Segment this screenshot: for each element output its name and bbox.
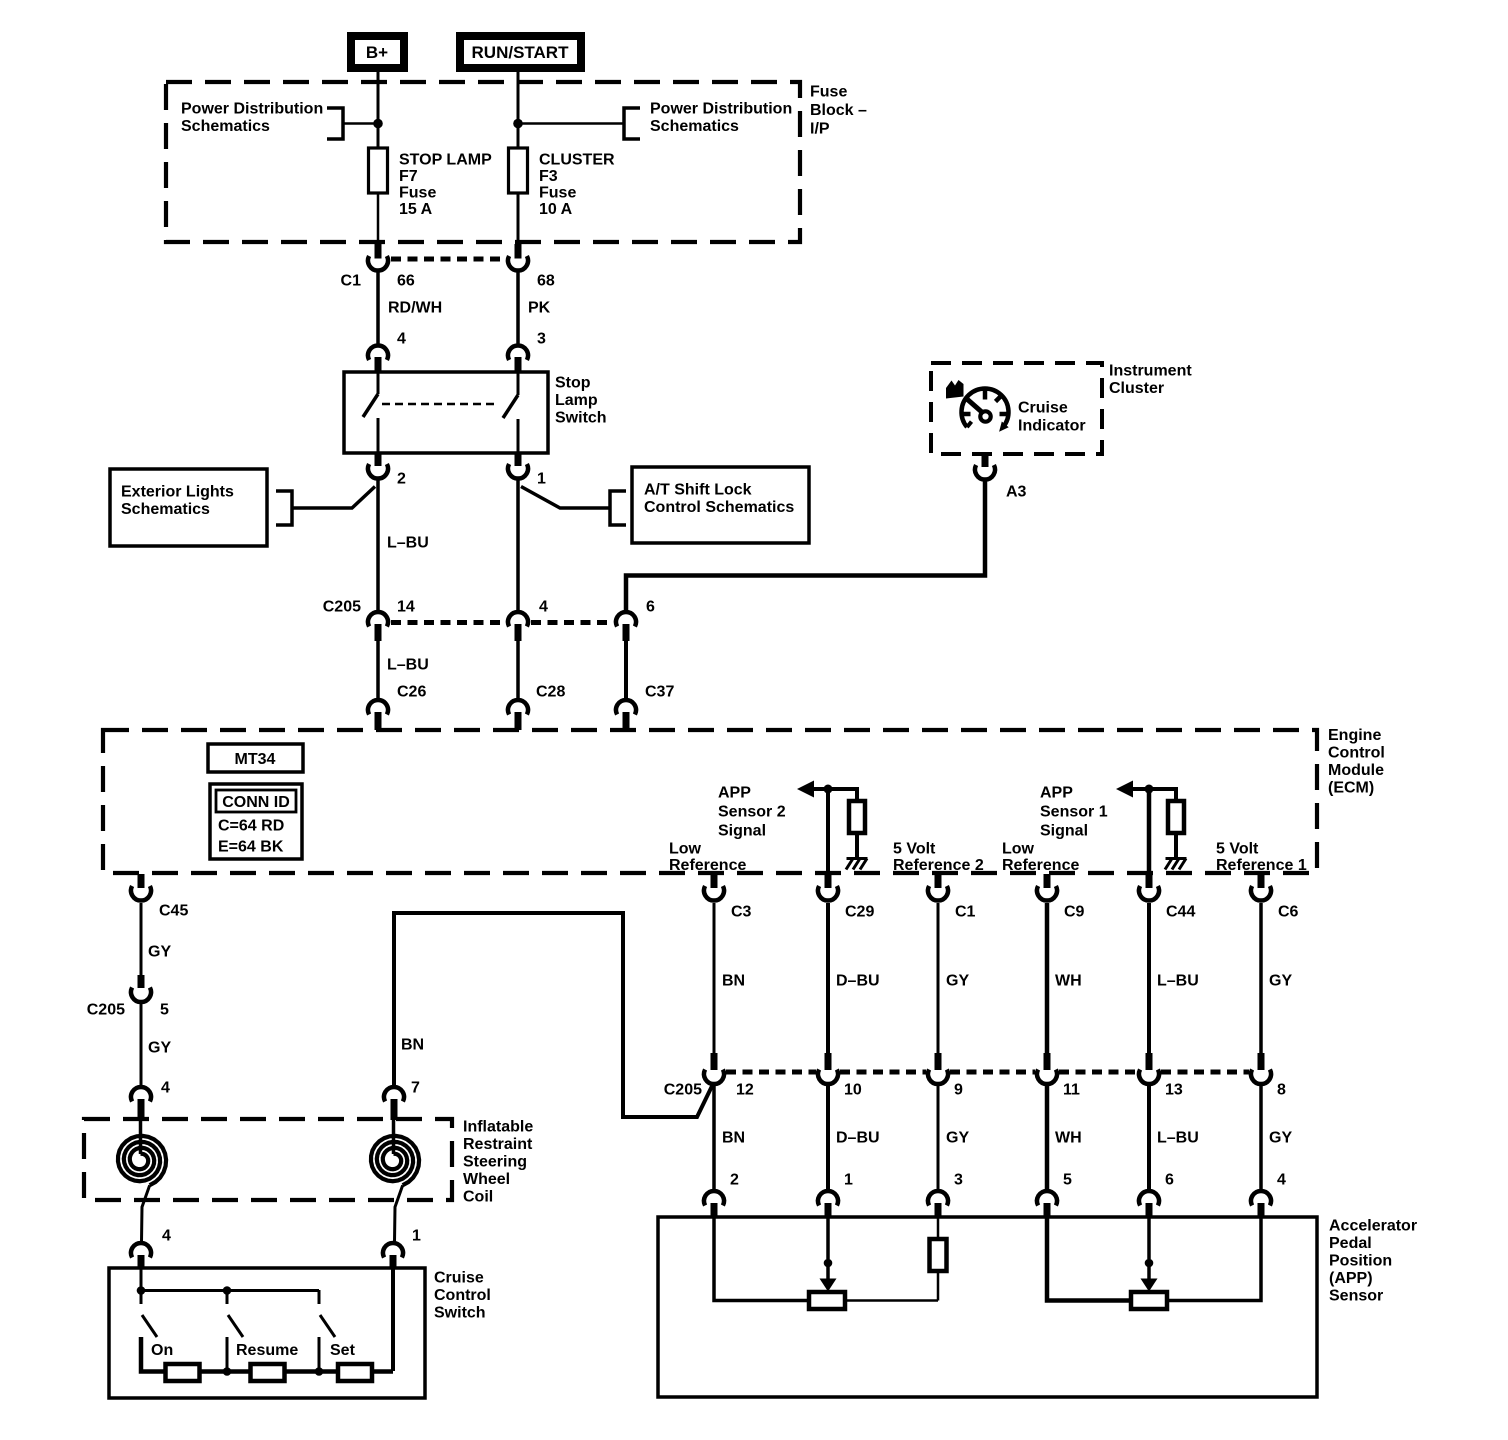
- svg-text:A/T Shift Lock: A/T Shift Lock: [644, 482, 752, 499]
- connector C45: [131, 874, 151, 901]
- connector pin 1 below switch: [508, 453, 528, 479]
- instrument cluster dashed box: [931, 363, 1102, 454]
- svg-text:Fuse: Fuse: [539, 185, 576, 202]
- svg-text:L–BU: L–BU: [387, 535, 429, 552]
- svg-text:C26: C26: [397, 684, 426, 701]
- svg-text:Accelerator: Accelerator: [1329, 1218, 1417, 1235]
- svg-text:C205: C205: [664, 1082, 702, 1099]
- wire L&#8211;BU C44 to C205: [1147, 903, 1151, 1054]
- wire APP sensor 2 signal down: [826, 789, 830, 874]
- svg-text:Resume: Resume: [236, 1342, 298, 1359]
- wire BN C205 to APP sensor: [712, 1086, 716, 1191]
- svg-text:APP: APP: [718, 785, 751, 802]
- wire D&#8211;BU C29 to C205: [826, 903, 830, 1054]
- label Inflatable Restraint Steering Wheel Coil: [463, 1119, 533, 1206]
- svg-text:WH: WH: [1055, 1130, 1082, 1147]
- resistor pull-up sensor 2: [849, 801, 865, 833]
- wire D&#8211;BU C205 to APP sensor: [826, 1086, 830, 1191]
- svg-text:STOP LAMP: STOP LAMP: [399, 152, 492, 169]
- svg-text:Low: Low: [669, 841, 702, 858]
- connector C9: [1037, 874, 1057, 901]
- svg-text:C1: C1: [341, 273, 362, 290]
- connector C205 pin 10: [818, 1053, 838, 1084]
- connector pin 3 stop lamp switch: [508, 345, 528, 372]
- svg-text:4: 4: [1277, 1172, 1286, 1189]
- C205 dashed mating line: [391, 620, 613, 625]
- svg-text:4: 4: [161, 1080, 170, 1097]
- svg-text:Reference: Reference: [1002, 857, 1079, 874]
- svg-text:L–BU: L–BU: [1157, 1130, 1199, 1147]
- wire WH C205 to APP sensor: [1045, 1086, 1050, 1191]
- svg-text:D–BU: D–BU: [836, 973, 880, 990]
- connector C205 pin 8: [1251, 1053, 1271, 1084]
- svg-text:Low: Low: [1002, 841, 1035, 858]
- connector C44: [1139, 874, 1159, 901]
- wire APP pin3 through resistor to potentiometer 2 high end: [937, 1217, 940, 1239]
- svg-text:10 A: 10 A: [539, 201, 573, 218]
- svg-text:Module: Module: [1328, 762, 1384, 779]
- svg-text:RUN/START: RUN/START: [472, 43, 570, 62]
- junction dot: [223, 1286, 232, 1295]
- svg-text:68: 68: [537, 273, 555, 290]
- svg-text:4: 4: [397, 331, 406, 348]
- svg-text:9: 9: [954, 1082, 963, 1099]
- connector C1: [928, 874, 948, 901]
- svg-text:(ECM): (ECM): [1328, 780, 1374, 797]
- ground (chassis) sensor 1: [1165, 859, 1187, 870]
- svg-text:14: 14: [397, 599, 415, 616]
- resistor R-on: [166, 1364, 200, 1381]
- connector C205 pin 5: [131, 975, 151, 1002]
- wire GY C6 to C205: [1259, 903, 1263, 1054]
- svg-text:3: 3: [954, 1172, 963, 1189]
- svg-text:10: 10: [844, 1082, 862, 1099]
- svg-text:E=64 BK: E=64 BK: [218, 839, 284, 856]
- wire L-BU C205-14 to C26: [376, 640, 380, 698]
- svg-text:5: 5: [160, 1002, 169, 1019]
- connector cruise switch pin 1: [383, 1243, 403, 1269]
- wire APP pin5 to potentiometer 1 low end: [1047, 1217, 1131, 1301]
- svg-text:C37: C37: [645, 684, 674, 701]
- fuse F7 STOP LAMP 15A: [369, 148, 493, 218]
- svg-text:Fuse: Fuse: [810, 84, 847, 101]
- label Instrument Cluster: [1109, 363, 1192, 398]
- junction dot: [1145, 785, 1154, 794]
- switch contact left (pin4 side): [377, 372, 380, 394]
- svg-text:5: 5: [1063, 1172, 1072, 1189]
- svg-text:C6: C6: [1278, 904, 1299, 921]
- svg-text:GY: GY: [148, 1040, 171, 1057]
- wire exterior lights to pin 2: [292, 487, 375, 509]
- wire cruise indicator A3 to C205-6: [626, 481, 985, 611]
- wire GY C205-5 to coil pin 4: [140, 1004, 143, 1086]
- svg-text:1: 1: [537, 471, 546, 488]
- connector coil pin 4: [131, 1087, 151, 1120]
- resistor pull-up sensor 1: [1168, 801, 1184, 833]
- svg-text:C29: C29: [845, 904, 874, 921]
- svg-text:L–BU: L–BU: [1157, 973, 1199, 990]
- svg-text:L–BU: L–BU: [387, 657, 429, 674]
- common bus: [141, 1289, 319, 1292]
- svg-text:Wheel: Wheel: [463, 1171, 510, 1188]
- connector C205 pin 12: [704, 1053, 724, 1084]
- svg-text:Signal: Signal: [718, 823, 766, 840]
- power symbol B+: [351, 36, 404, 68]
- svg-text:5 Volt: 5 Volt: [893, 841, 936, 858]
- svg-text:5 Volt: 5 Volt: [1216, 841, 1259, 858]
- wire resistor to ground: [855, 833, 859, 858]
- exterior lights schematics box: [110, 469, 267, 546]
- wire RUN/START to fuse F3: [517, 72, 520, 148]
- connector C205 pin 14: [368, 612, 388, 641]
- label Low Reference (right): [1002, 841, 1079, 875]
- svg-text:15 A: 15 A: [399, 201, 433, 218]
- connector APP pin 4: [1251, 1191, 1271, 1218]
- svg-text:GY: GY: [946, 1130, 969, 1147]
- connector C205 pin 11: [1037, 1053, 1057, 1084]
- wire APP sensor 1 signal down: [1147, 789, 1152, 874]
- svg-text:(APP): (APP): [1329, 1270, 1373, 1287]
- svg-text:6: 6: [1165, 1172, 1174, 1189]
- accelerator pedal position sensor box: [658, 1217, 1317, 1397]
- connector C205 pin 13: [1139, 1053, 1159, 1084]
- C205 dashed mating line (right): [726, 1070, 1249, 1075]
- switch contact right lower: [517, 419, 520, 453]
- label Stop Lamp Switch: [555, 375, 607, 427]
- resistor R-set: [338, 1364, 372, 1381]
- connector C205 pin 6: [616, 612, 636, 641]
- wire A/T shift lock to pin 1: [521, 487, 610, 509]
- connector C1 dashed mating line: [391, 257, 505, 262]
- connector C28: [508, 700, 528, 730]
- svg-text:7: 7: [411, 1080, 420, 1097]
- svg-text:Control: Control: [1328, 745, 1385, 762]
- svg-text:Power Distribution: Power Distribution: [650, 101, 792, 118]
- label APP Sensor 1 Signal: [1040, 785, 1108, 840]
- svg-text:3: 3: [537, 331, 546, 348]
- fuse block I/P dashed box: [166, 82, 800, 242]
- wire GY C45 to C205-5: [140, 903, 143, 975]
- wire resistor to potentiometer 2: [845, 1271, 938, 1301]
- label Engine Control Module (ECM): [1328, 727, 1385, 797]
- fuse F3 CLUSTER 10A: [509, 148, 616, 218]
- svg-text:Instrument: Instrument: [1109, 363, 1192, 380]
- connector coil pin 7: [384, 1087, 404, 1120]
- svg-text:Switch: Switch: [434, 1305, 486, 1322]
- connector C1 pin 66: [368, 244, 388, 271]
- svg-text:Schematics: Schematics: [650, 118, 739, 135]
- svg-text:Lamp: Lamp: [555, 392, 598, 409]
- wire RD/WH: [376, 273, 380, 346]
- connector APP pin 5: [1037, 1191, 1057, 1218]
- svg-text:2: 2: [730, 1172, 739, 1189]
- connector C1 pin 68: [508, 244, 528, 271]
- switch Set: [319, 1290, 335, 1371]
- svg-text:1: 1: [844, 1172, 853, 1189]
- wire right reference to RUN/START feed: [518, 122, 624, 125]
- svg-text:Fuse: Fuse: [399, 185, 436, 202]
- svg-text:APP: APP: [1040, 785, 1073, 802]
- svg-text:11: 11: [1063, 1082, 1080, 1099]
- wire pin1 to C205-4: [516, 480, 520, 611]
- svg-text:B+: B+: [366, 43, 388, 62]
- steering wheel coil spiral (pin 4 side): [118, 1119, 166, 1242]
- svg-text:GY: GY: [946, 973, 969, 990]
- svg-text:GY: GY: [1269, 1130, 1292, 1147]
- svg-text:Set: Set: [330, 1342, 356, 1359]
- svg-text:Restraint: Restraint: [463, 1136, 533, 1153]
- svg-text:Switch: Switch: [555, 410, 607, 427]
- svg-text:8: 8: [1277, 1082, 1286, 1099]
- svg-text:Block –: Block –: [810, 102, 867, 119]
- svg-text:Sensor 2: Sensor 2: [718, 804, 786, 821]
- wire C205-6 to C37: [624, 640, 628, 698]
- label 5 Volt Reference 2: [893, 841, 984, 875]
- connector A3 instrument cluster: [975, 454, 995, 480]
- junction dot: [373, 119, 383, 129]
- junction dot: [137, 1286, 146, 1295]
- connector pin 4 stop lamp switch: [368, 345, 388, 372]
- svg-text:Indicator: Indicator: [1018, 418, 1086, 435]
- svg-text:Position: Position: [1329, 1253, 1392, 1270]
- connector C6: [1251, 874, 1271, 901]
- connector C3: [704, 874, 724, 901]
- svg-text:Stop: Stop: [555, 375, 591, 392]
- off-page reference Power Distribution Schematics (right): [624, 101, 792, 140]
- engine control module dashed box: [103, 730, 1317, 873]
- svg-text:C=64 RD: C=64 RD: [218, 818, 284, 835]
- wire F7 to connector C1-66: [377, 193, 380, 245]
- wire BN C3 to C205: [713, 903, 716, 1054]
- svg-text:BN: BN: [722, 1130, 745, 1147]
- label 5 Volt Reference 1: [1216, 841, 1307, 875]
- label APP Sensor 2 Signal: [718, 785, 786, 840]
- svg-text:C205: C205: [87, 1002, 125, 1019]
- svg-text:RD/WH: RD/WH: [388, 300, 442, 317]
- svg-text:A3: A3: [1006, 484, 1027, 501]
- svg-text:F3: F3: [539, 168, 558, 185]
- junction dot: [315, 1367, 324, 1376]
- label Cruise Indicator: [1018, 400, 1086, 435]
- svg-text:Cruise: Cruise: [1018, 400, 1068, 417]
- svg-text:Reference 2: Reference 2: [893, 857, 984, 874]
- connector APP pin 1: [818, 1191, 838, 1218]
- switch contact right (pin3 side): [517, 372, 520, 395]
- svg-text:BN: BN: [722, 973, 745, 990]
- connector C26: [368, 700, 388, 730]
- bottom bus with resistors: [141, 1337, 393, 1372]
- resistor R-resume: [251, 1364, 285, 1381]
- wire WH C9 to C205: [1045, 903, 1050, 1054]
- svg-text:C45: C45: [159, 903, 188, 920]
- wire F3 to connector C1-68: [517, 193, 520, 245]
- ground (chassis) sensor 2: [846, 859, 868, 870]
- label box MT34: [208, 744, 303, 772]
- connector APP pin 6: [1139, 1191, 1159, 1218]
- svg-text:6: 6: [646, 599, 655, 616]
- svg-text:PK: PK: [528, 300, 551, 317]
- steering wheel coil dashed box: [84, 1119, 452, 1200]
- label Low Reference (left): [669, 841, 746, 875]
- bracket A/T shift lock: [610, 491, 626, 525]
- switch blade left: [363, 394, 378, 417]
- svg-text:Exterior Lights: Exterior Lights: [121, 484, 234, 501]
- connector C205 pin 9: [928, 1053, 948, 1084]
- svg-text:Schematics: Schematics: [121, 501, 210, 518]
- svg-text:4: 4: [539, 599, 548, 616]
- stop lamp switch box: [344, 372, 548, 453]
- connector C37: [616, 700, 636, 730]
- svg-text:4: 4: [162, 1228, 171, 1245]
- wire C205-4 to C28: [516, 640, 520, 698]
- APP sensor 1 signal arrow: [1116, 781, 1176, 802]
- svg-text:Power Distribution: Power Distribution: [181, 101, 323, 118]
- wire resistor to ground: [1174, 833, 1178, 858]
- svg-text:Signal: Signal: [1040, 823, 1088, 840]
- potentiometer APP sensor 1: [1131, 1292, 1167, 1309]
- svg-text:C3: C3: [731, 904, 752, 921]
- connector APP pin 3: [928, 1191, 948, 1218]
- CONN ID table: [210, 784, 302, 859]
- switch contact left lower: [377, 418, 380, 453]
- wire APP pin2 to potentiometer 2 low end: [714, 1217, 809, 1301]
- wire left reference to B+ feed: [343, 122, 378, 125]
- svg-text:C205: C205: [323, 599, 361, 616]
- wire GY C1 to C205: [937, 903, 940, 1054]
- label Cruise Control Switch: [434, 1270, 491, 1322]
- connector C29: [818, 874, 838, 901]
- svg-text:On: On: [151, 1342, 173, 1359]
- switch On: [141, 1290, 157, 1371]
- wire BN C205-12 to steering wheel coil pin 7: [394, 913, 713, 1117]
- APP sensor 2 signal arrow: [797, 781, 857, 802]
- svg-text:66: 66: [397, 273, 415, 290]
- junction dot: [824, 785, 833, 794]
- svg-text:C44: C44: [1166, 904, 1195, 921]
- svg-text:Sensor 1: Sensor 1: [1040, 804, 1108, 821]
- svg-text:GY: GY: [148, 944, 171, 961]
- connector C205 pin 4: [508, 612, 528, 641]
- svg-text:Reference: Reference: [669, 857, 746, 874]
- svg-text:F7: F7: [399, 168, 418, 185]
- wire L-BU pin2 to C205-14: [376, 480, 380, 611]
- svg-text:Reference 1: Reference 1: [1216, 857, 1307, 874]
- wire GY C205 to APP sensor: [937, 1086, 940, 1191]
- wire APP pin4 to potentiometer 1 high end: [1167, 1217, 1261, 1301]
- svg-text:I/P: I/P: [810, 121, 830, 138]
- svg-text:GY: GY: [1269, 973, 1292, 990]
- switch Resume: [227, 1290, 243, 1371]
- svg-text:2: 2: [397, 471, 406, 488]
- svg-text:Cruise: Cruise: [434, 1270, 484, 1287]
- svg-text:12: 12: [736, 1082, 754, 1099]
- power symbol RUN/START: [460, 36, 581, 68]
- svg-text:C1: C1: [955, 904, 976, 921]
- steering wheel coil spiral (pin 7 side): [371, 1119, 419, 1242]
- svg-text:Coil: Coil: [463, 1189, 493, 1206]
- svg-text:13: 13: [1165, 1082, 1183, 1099]
- svg-text:1: 1: [412, 1228, 421, 1245]
- svg-text:Cluster: Cluster: [1109, 380, 1164, 397]
- svg-text:CLUSTER: CLUSTER: [539, 152, 615, 169]
- wire B+ to fuse F7: [377, 72, 380, 148]
- mechanical linkage dashed: [382, 403, 497, 406]
- connector pin 2 below switch: [368, 453, 388, 479]
- svg-text:Schematics: Schematics: [181, 118, 270, 135]
- svg-text:C28: C28: [536, 684, 565, 701]
- return riser to pin 1: [391, 1268, 395, 1371]
- svg-text:BN: BN: [401, 1037, 424, 1054]
- label Accelerator Pedal Position (APP) Sensor: [1329, 1218, 1417, 1305]
- A/T shift lock control schematics box: [632, 467, 809, 543]
- wiper arrow sensor 1: [1141, 1217, 1158, 1292]
- resistor APP sensor 2: [930, 1239, 947, 1271]
- svg-text:WH: WH: [1055, 973, 1082, 990]
- wire L&#8211;BU C205 to APP sensor: [1147, 1086, 1151, 1191]
- cruise control switch box: [109, 1268, 425, 1398]
- junction dot: [223, 1367, 232, 1376]
- svg-text:D–BU: D–BU: [836, 1130, 880, 1147]
- connector APP pin 2: [704, 1191, 724, 1218]
- switch blade right: [503, 395, 518, 418]
- junction dot: [513, 119, 523, 129]
- svg-text:Control: Control: [434, 1287, 491, 1304]
- cruise indicator gauge icon: [946, 380, 1009, 432]
- wire pin4 into switch: [140, 1268, 143, 1290]
- off-page reference Power Distribution Schematics (left): [181, 101, 343, 140]
- label Fuse Block - I/P: [810, 84, 867, 138]
- svg-text:Sensor: Sensor: [1329, 1288, 1383, 1305]
- svg-text:Control Schematics: Control Schematics: [644, 499, 794, 516]
- wiper arrow sensor 2: [820, 1217, 837, 1292]
- connector cruise switch pin 4: [131, 1243, 151, 1269]
- bracket exterior lights: [276, 491, 292, 525]
- svg-text:C9: C9: [1064, 904, 1085, 921]
- svg-text:Pedal: Pedal: [1329, 1235, 1372, 1252]
- wire GY C205 to APP sensor: [1259, 1086, 1263, 1191]
- potentiometer APP sensor 2: [809, 1292, 845, 1309]
- svg-text:Steering: Steering: [463, 1154, 527, 1171]
- svg-text:Engine: Engine: [1328, 727, 1381, 744]
- svg-text:CONN ID: CONN ID: [222, 794, 290, 811]
- svg-text:Inflatable: Inflatable: [463, 1119, 533, 1136]
- wire PK: [516, 273, 520, 346]
- svg-text:MT34: MT34: [235, 751, 276, 768]
